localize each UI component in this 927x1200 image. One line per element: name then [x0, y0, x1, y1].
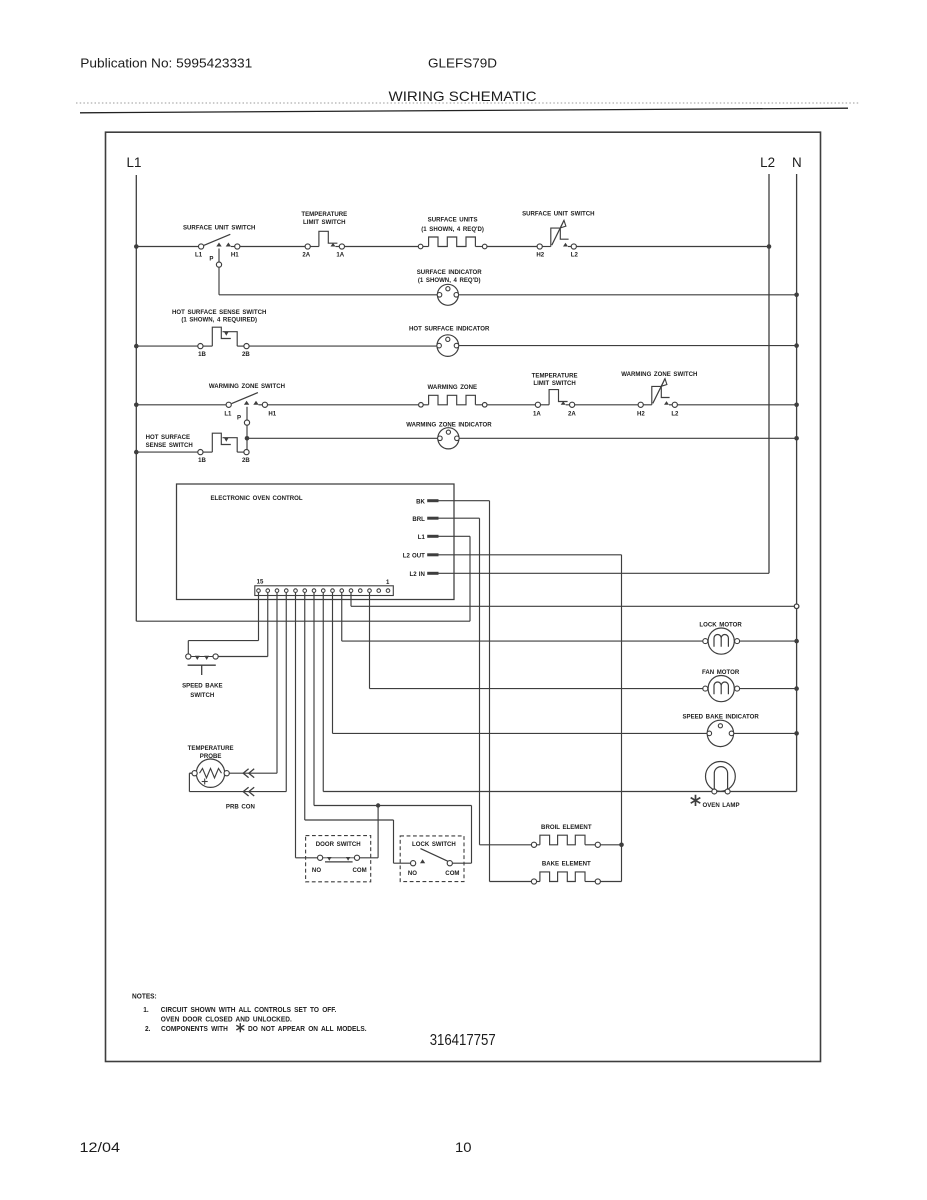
svg-text:SPEED BAKE: SPEED BAKE [182, 682, 223, 689]
svg-text:SURFACE UNITS: SURFACE UNITS [428, 216, 479, 223]
svg-text:12/04: 12/04 [80, 1139, 121, 1155]
wire row3 L1 to sense switch [136, 345, 198, 347]
svg-text:L2 OUT: L2 OUT [403, 552, 425, 559]
wire L1 vertical [469, 536, 471, 621]
svg-text:NOTES:: NOTES: [132, 993, 157, 1000]
svg-text:OVEN LAMP: OVEN LAMP [702, 802, 740, 809]
node junction N row4 [794, 403, 799, 408]
svg-text:2B: 2B [242, 457, 250, 464]
node junction N lock motor [794, 639, 799, 644]
wire terminal 9 to common of door and lock switches [313, 592, 315, 805]
node junction L1 row1 [134, 244, 139, 249]
svg-text:10: 10 [455, 1139, 472, 1155]
wire P to surface indicator row [218, 267, 220, 295]
svg-text:1.: 1. [143, 1007, 149, 1014]
switch S11 lock switch box [400, 836, 464, 882]
title dotted rule [76, 102, 860, 104]
svg-text:COM: COM [445, 870, 459, 877]
svg-text:H2: H2 [637, 410, 645, 417]
svg-text:L1: L1 [224, 410, 232, 417]
svg-text:2.: 2. [145, 1026, 151, 1033]
wire H1 to warming zone element [268, 404, 419, 406]
svg-text:1A: 1A [336, 251, 344, 258]
wire L1 bus vertical [135, 175, 137, 621]
switch S1 surface unit switch left (L1/P/H1) [199, 244, 204, 249]
wire terminal 11 to door switch NO [295, 592, 297, 857]
svg-text:1: 1 [386, 579, 390, 586]
wire surface units to H2 [487, 246, 537, 248]
resistor warming zone element [419, 403, 424, 408]
svg-text:316417757: 316417757 [430, 1032, 496, 1049]
wire H1 to temperature limit switch [240, 246, 305, 248]
resistor bake element [490, 881, 532, 883]
switch S2 temperature limit switch (2A/1A) [305, 244, 310, 249]
wire terminal 12 to probe connector low [285, 592, 287, 791]
node junction N fan motor [794, 686, 799, 691]
svg-text:CIRCUIT SHOWN WITH ALL CONTROL: CIRCUIT SHOWN WITH ALL CONTROLS SET TO O… [161, 1007, 337, 1014]
wire P tap row1 vertical [218, 249, 220, 263]
svg-text:TEMPERATURE: TEMPERATURE [532, 372, 579, 379]
wire lock motor to N [740, 640, 797, 642]
node P terminal row1 [216, 262, 221, 267]
wire fan motor to N [740, 688, 797, 690]
svg-text:GLEFS79D: GLEFS79D [428, 55, 497, 70]
node junction L1 row3 [134, 344, 139, 349]
wire L1 stub [439, 535, 471, 537]
svg-text:OVEN DOOR CLOSED AND UNLOCKED.: OVEN DOOR CLOSED AND UNLOCKED. [161, 1016, 292, 1023]
svg-text:COM: COM [352, 867, 366, 874]
svg-text:BRL: BRL [412, 516, 425, 523]
wire hot surface indicator to N [458, 345, 796, 347]
svg-text:PROBE: PROBE [200, 753, 222, 760]
wire door COM riser [377, 806, 379, 858]
svg-text:TEMPERATURE: TEMPERATURE [188, 745, 235, 752]
svg-text:(1 SHOWN, 4 REQ'D): (1 SHOWN, 4 REQ'D) [418, 277, 481, 284]
svg-text:WARMING ZONE SWITCH: WARMING ZONE SWITCH [209, 383, 286, 390]
connector J1 terminal strip [255, 586, 393, 596]
svg-text:HOT SURFACE: HOT SURFACE [146, 434, 191, 441]
switch S10 door switch box [306, 836, 371, 882]
switch S6 temperature limit switch (1A/2A) [535, 402, 540, 407]
svg-text:1B: 1B [198, 351, 206, 358]
lamp DS3 warming zone indicator [438, 428, 459, 449]
svg-text:LOCK MOTOR: LOCK MOTOR [699, 621, 742, 628]
svg-text:(1 SHOWN, 4 REQ'D): (1 SHOWN, 4 REQ'D) [421, 226, 484, 233]
svg-text:BROIL ELEMENT: BROIL ELEMENT [541, 824, 592, 831]
wire probe left lead [189, 772, 192, 774]
op-amp U1 electronic oven control box [177, 484, 455, 600]
lamp DS5 oven lamp [706, 762, 736, 792]
svg-text:H1: H1 [268, 410, 276, 417]
node junction warming zone indicator tap [245, 436, 250, 441]
wire BRL stub [439, 517, 480, 519]
svg-text:FAN MOTOR: FAN MOTOR [702, 669, 740, 676]
svg-text:BAKE ELEMENT: BAKE ELEMENT [542, 860, 591, 867]
svg-text:1B: 1B [198, 457, 206, 464]
svg-text:WIRING SCHEMATIC: WIRING SCHEMATIC [389, 89, 537, 104]
node junction broil to L2 OUT [619, 843, 624, 848]
wire terminal 8 to oven lamp row [322, 592, 324, 791]
svg-text:2A: 2A [302, 251, 310, 258]
wire 2A to H2 [575, 404, 638, 406]
wire row4 L1 to warming zone switch [136, 404, 226, 406]
svg-text:L1: L1 [195, 251, 203, 258]
connector PRB CON lower [243, 787, 254, 796]
svg-text:HOT SURFACE SENSE SWITCH: HOT SURFACE SENSE SWITCH [172, 309, 267, 316]
switch S9 speed bake switch [191, 656, 213, 658]
svg-text:WARMING ZONE INDICATOR: WARMING ZONE INDICATOR [406, 421, 492, 428]
schematic border frame [106, 132, 821, 1061]
wire warming zone to 1A [487, 404, 535, 406]
wire P tap row4 vertical [246, 407, 248, 420]
wire L2 OUT vertical to elements [621, 555, 623, 882]
svg-text:L2: L2 [671, 410, 679, 417]
svg-text:P: P [237, 414, 242, 421]
wire L2 bus vertical [768, 174, 770, 573]
wire row5 to warming zone indicator [247, 437, 438, 439]
wire L2 IN stub to L2 bus [439, 572, 770, 574]
svg-text:PRB CON: PRB CON [226, 803, 255, 810]
wire 1A to surface units [345, 246, 419, 248]
svg-text:LIMIT SWITCH: LIMIT SWITCH [303, 219, 346, 226]
wire row1 L1 to switch [136, 246, 198, 248]
node terminal junction on N [794, 604, 799, 609]
svg-text:15: 15 [257, 578, 264, 585]
switch S4 hot surface sense switch (1B/2B) [198, 344, 203, 349]
svg-text:ELECTRONIC OVEN CONTROL: ELECTRONIC OVEN CONTROL [211, 495, 303, 502]
wire 2B to hot surface indicator [249, 345, 437, 347]
svg-text:2B: 2B [242, 351, 250, 358]
lamp DS1 surface indicator [437, 284, 458, 305]
resistor RT1 temperature probe [196, 759, 224, 787]
svg-text:L2 IN: L2 IN [409, 571, 425, 578]
svg-text:L1: L1 [127, 155, 142, 170]
wire speed bake indicator to N [734, 732, 797, 734]
node junction L1 row4 [134, 403, 139, 408]
wire BK vertical to bake element [489, 501, 491, 882]
svg-text:H2: H2 [536, 251, 544, 258]
motor M2 fan motor [708, 676, 734, 702]
wire N bus vertical [796, 174, 798, 792]
svg-text:WARMING ZONE SWITCH: WARMING ZONE SWITCH [621, 371, 698, 378]
node P terminal row4 [244, 420, 249, 425]
switch S8 hot surface sense switch 2 (1B/2B) [198, 450, 203, 455]
svg-text:BK: BK [416, 498, 425, 505]
wire terminal 5 to N [350, 592, 352, 606]
svg-text:H1: H1 [231, 251, 239, 258]
wire terminal 13 to probe connector [276, 592, 278, 773]
node junction N row3 [794, 343, 799, 348]
wire BRL vertical to broil element [479, 518, 481, 845]
svg-text:TEMPERATURE: TEMPERATURE [301, 211, 348, 218]
svg-text:NO: NO [408, 870, 417, 877]
resistor surface units element [418, 244, 423, 249]
wire row4 to N [677, 404, 796, 406]
switch S3 surface unit switch right (H2/L2) [537, 244, 542, 249]
wire surface indicator to N [458, 294, 796, 296]
svg-text:HOT SURFACE INDICATOR: HOT SURFACE INDICATOR [409, 325, 490, 332]
wire terminal 14 to speed bake switch [267, 592, 269, 656]
svg-text:SURFACE INDICATOR: SURFACE INDICATOR [417, 269, 482, 276]
svg-text:SENSE SWITCH: SENSE SWITCH [146, 442, 194, 449]
svg-text:COMPONENTS WITH: COMPONENTS WITH [161, 1026, 228, 1033]
svg-text:L1: L1 [418, 534, 426, 541]
svg-text:1A: 1A [533, 410, 541, 417]
title solid rule [80, 108, 848, 113]
node junction N row2 [794, 293, 799, 298]
svg-text:NO: NO [312, 867, 321, 874]
svg-text:LIMIT SWITCH: LIMIT SWITCH [533, 380, 576, 387]
switch S11 lock switch contacts NO COM [411, 861, 416, 866]
resistor broil element [480, 844, 532, 846]
wire terminal 7 to speed bake indicator [332, 592, 334, 733]
wire terminal 3 to fan motor [369, 592, 371, 688]
lamp DS4 speed bake indicator [707, 720, 733, 746]
svg-text:L2: L2 [760, 155, 775, 170]
svg-text:(1 SHOWN, 4 REQUIRED): (1 SHOWN, 4 REQUIRED) [181, 316, 257, 323]
svg-text:SWITCH: SWITCH [190, 692, 214, 699]
wire terminal 15 to speed bake switch [258, 592, 260, 640]
svg-text:WARMING ZONE: WARMING ZONE [428, 384, 478, 391]
wire L1 return to L1 bus [136, 620, 470, 622]
svg-text:P: P [209, 255, 214, 262]
node junction door COM [376, 803, 380, 807]
switch S5 warming zone switch left (L1/P/H1) [226, 402, 231, 407]
svg-text:Publication No: 5995423331: Publication No: 5995423331 [80, 56, 252, 71]
connector PRB CON upper [243, 769, 254, 778]
wire P row4 down to 2B [246, 425, 248, 450]
node junction N row5 [794, 436, 799, 441]
node junction N speed bake indicator [794, 731, 799, 736]
switch S7 warming zone switch right (H2/L2) [638, 402, 643, 407]
wire L2 OUT stub [439, 554, 622, 556]
svg-text:SPEED BAKE INDICATOR: SPEED BAKE INDICATOR [682, 713, 759, 720]
wire BK stub [439, 500, 490, 502]
svg-text:LOCK SWITCH: LOCK SWITCH [412, 841, 456, 848]
switch S10 door switch contacts NO COM [323, 857, 355, 859]
svg-text:2A: 2A [568, 410, 576, 417]
wire terminal 10 to lock switch NO [304, 592, 306, 820]
oven lamp asterisk mark [691, 795, 701, 806]
svg-text:DOOR SWITCH: DOOR SWITCH [316, 841, 361, 848]
wire terminal 6 to lock motor [341, 592, 343, 641]
wire warming zone indicator to N [459, 437, 797, 439]
node junction L1 row6 [134, 450, 139, 455]
node junction L2 row1 [767, 244, 772, 249]
wire L2 contact to L2 bus [576, 246, 769, 248]
motor M1 lock motor [708, 628, 734, 654]
wire row6 L1 to sense switch 2 [136, 451, 198, 453]
svg-text:SURFACE UNIT SWITCH: SURFACE UNIT SWITCH [183, 224, 256, 231]
svg-text:DO NOT APPEAR ON ALL MODELS.: DO NOT APPEAR ON ALL MODELS. [248, 1026, 367, 1033]
svg-text:L2: L2 [571, 251, 579, 258]
svg-text:SURFACE UNIT SWITCH: SURFACE UNIT SWITCH [522, 210, 595, 217]
svg-text:N: N [792, 155, 802, 170]
lamp DS2 hot surface indicator [437, 335, 459, 357]
